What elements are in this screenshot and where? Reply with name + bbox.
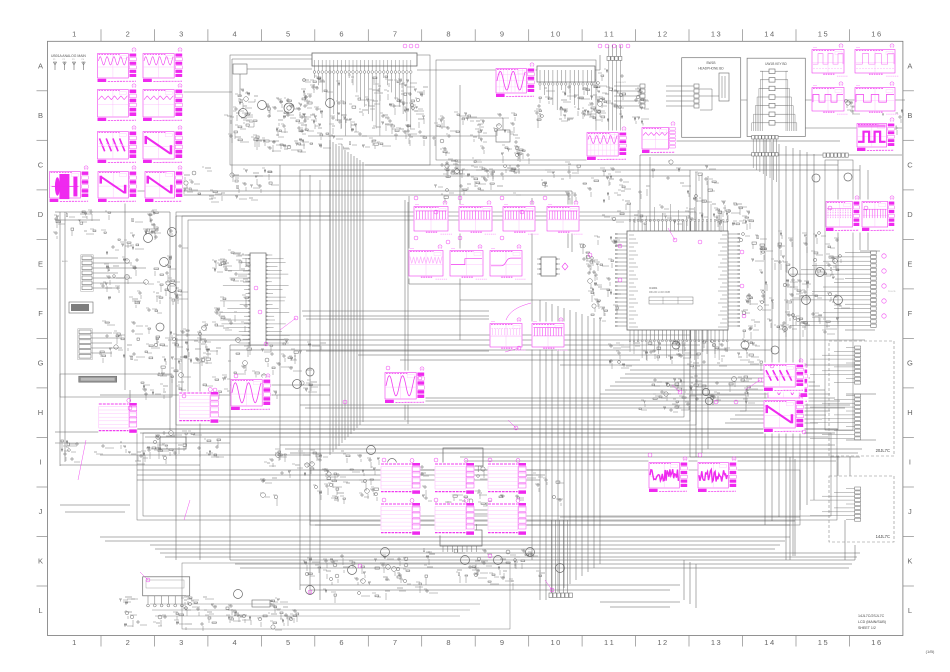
leader curve to comb inset	[506, 303, 531, 320]
circuit cluster: d row mid-left parts	[181, 167, 279, 202]
waveform inset W25	[490, 245, 527, 279]
waveform inset W1	[97, 48, 138, 84]
svg-text:L: L	[38, 606, 42, 615]
circuit cluster: ic1001 top periphery	[602, 198, 754, 232]
waveform inset W32	[385, 367, 426, 405]
connector CN604	[549, 593, 572, 598]
circuit cluster: vertical out section	[303, 554, 438, 603]
bus wiring harness horizontal	[55, 141, 902, 607]
svg-text:1 3: 1 3	[711, 29, 721, 38]
svg-text:E: E	[38, 260, 43, 269]
svg-text:1 6: 1 6	[871, 638, 881, 647]
dashed board 14JL7C	[829, 476, 894, 542]
transistor Q905	[672, 341, 680, 349]
waveform inset W7	[98, 166, 138, 204]
svg-text:C: C	[907, 161, 913, 170]
outline sync box	[60, 374, 172, 397]
magenta pointer lines	[78, 228, 760, 590]
svg-text:J: J	[908, 507, 912, 516]
svg-text:1: 1	[72, 638, 76, 647]
svg-text:F: F	[908, 309, 913, 318]
svg-text:P2: P2	[63, 59, 66, 61]
waveform inset W22	[547, 201, 584, 234]
svg-text:1 4: 1 4	[764, 29, 774, 38]
transistor Q202	[258, 101, 267, 110]
IC IC202	[537, 257, 560, 276]
CN604 risers	[552, 520, 568, 593]
svg-text:6: 6	[339, 638, 343, 647]
svg-text:R.CH OUT: R.CH OUT	[616, 82, 626, 84]
transistor Q602	[306, 586, 315, 595]
transistor Q1004	[834, 296, 843, 305]
svg-text:K: K	[907, 557, 912, 566]
connector CN902	[752, 153, 778, 157]
waveform inset W31	[231, 374, 272, 412]
svg-text:P3: P3	[72, 59, 75, 61]
circuit cluster: c row mid parts	[541, 160, 719, 205]
svg-text:14JL7C/2SJL7C: 14JL7C/2SJL7C	[858, 614, 885, 618]
module M1	[233, 64, 247, 74]
svg-text:IC1001: IC1001	[649, 286, 658, 290]
IC IC101	[220, 253, 290, 345]
svg-text:J: J	[39, 507, 43, 516]
transistor Q1001	[789, 268, 798, 277]
data inset L8	[488, 499, 527, 536]
svg-text:1 1: 1 1	[604, 638, 614, 647]
transistor Q907	[771, 346, 779, 354]
IC IC601 regulator	[143, 577, 190, 596]
transistor Q302	[306, 368, 314, 376]
IC IC1001 main processor	[615, 204, 739, 360]
CN601 bus drop	[609, 60, 621, 150]
connector CN201 strip	[537, 66, 595, 82]
waveform inset W18	[857, 118, 896, 153]
connector CN102	[78, 329, 92, 360]
transistor Q503	[556, 564, 565, 573]
transistor Q911	[844, 173, 852, 181]
sub-board BW1B HEADPHONE BD	[682, 58, 741, 138]
waveform inset W15	[855, 44, 900, 76]
small box M2	[496, 130, 510, 142]
svg-text:I: I	[39, 458, 41, 467]
wire M1	[247, 68, 312, 70]
component row I wires	[55, 442, 230, 444]
data inset L5	[488, 459, 527, 495]
svg-text:P4: P4	[82, 59, 85, 61]
svg-text:D: D	[907, 210, 913, 219]
svg-text:6: 6	[339, 29, 343, 38]
svg-text:G: G	[38, 359, 44, 368]
svg-text:LCD (MAIN/SUB): LCD (MAIN/SUB)	[858, 620, 886, 624]
transistor Q603	[348, 566, 357, 575]
circuit cluster: sub out section	[639, 374, 758, 412]
svg-text:20JL7C: 20JL7C	[876, 448, 890, 453]
waveform inset W4	[143, 84, 184, 123]
svg-text:1 0: 1 0	[550, 29, 560, 38]
circuit cluster: ic1001 left periphery	[579, 236, 621, 321]
transistor Q404	[388, 459, 397, 468]
CN701 pin fanout wires	[313, 66, 412, 136]
waveform inset W9	[49, 166, 90, 204]
waveform inset W27	[862, 196, 896, 233]
circuit cluster: audio out section	[845, 91, 904, 135]
circuit cluster: chroma amp section	[260, 449, 380, 506]
transistor Q102	[168, 228, 177, 237]
svg-text:C: C	[38, 161, 44, 170]
circuit cluster: ic101 periphery	[212, 250, 251, 342]
waveform inset W16	[812, 82, 849, 114]
svg-text:1 4: 1 4	[764, 638, 774, 647]
svg-text:F: F	[38, 309, 43, 318]
waveform inset W20	[459, 201, 497, 234]
circuit cluster: d row left parts	[53, 210, 173, 240]
svg-text:4: 4	[233, 638, 237, 647]
svg-text:1 5: 1 5	[818, 638, 828, 647]
L row outline	[182, 563, 510, 629]
waveform inset W28	[490, 318, 527, 350]
transistor Q1003	[802, 296, 811, 305]
headphone jack J801	[719, 73, 729, 101]
dashed board 20JL7C	[829, 341, 894, 456]
waveform inset W2	[143, 48, 184, 84]
svg-text:B: B	[907, 111, 912, 120]
connector CN802 stack	[640, 84, 645, 108]
circuit cluster: sound if section	[99, 321, 212, 370]
connector CN1301	[810, 487, 861, 521]
svg-text:D: D	[38, 210, 44, 219]
bus wiring harness vertical	[60, 60, 868, 608]
transistor Q501	[494, 556, 503, 565]
IC IC402	[443, 448, 483, 466]
circuit cluster: sync separator section	[141, 339, 326, 405]
circuit cluster: ic402 periphery	[420, 465, 564, 510]
svg-text:SHEET 1/2: SHEET 1/2	[858, 626, 876, 630]
svg-text:1 2: 1 2	[657, 29, 667, 38]
key bd drop wires	[753, 139, 777, 182]
circuit cluster: ic1001 right periphery	[738, 231, 850, 339]
circuit cluster: tone control section	[590, 69, 649, 129]
sub out outline	[690, 395, 746, 411]
key switches SW1-SW7	[760, 69, 788, 125]
wires CN802 left	[614, 86, 640, 106]
circuit cluster: video id section	[61, 431, 224, 464]
svg-text:I: I	[909, 458, 911, 467]
svg-text:8: 8	[446, 29, 450, 38]
connector CN1201	[810, 346, 861, 384]
connector CN901	[752, 136, 778, 140]
wires left section	[91, 258, 146, 353]
waveform inset W6	[143, 126, 184, 165]
svg-text:1 3: 1 3	[711, 638, 721, 647]
circuit cluster: chroma trap section	[432, 112, 530, 179]
svg-text:1 2: 1 2	[657, 638, 667, 647]
resistor box R601	[252, 600, 270, 607]
svg-text:P1: P1	[53, 59, 56, 61]
left audio jack block	[69, 302, 93, 313]
svg-text:L: L	[908, 606, 912, 615]
svg-text:9: 9	[500, 29, 504, 38]
waveform inset W17	[855, 82, 900, 114]
waveform inset W24	[450, 245, 488, 279]
svg-text:4: 4	[233, 29, 237, 38]
circuit cluster: c row mid parts 2	[434, 161, 521, 203]
svg-text:3: 3	[179, 638, 183, 647]
circuit cluster: video input section	[296, 75, 428, 149]
routing loop rectangles	[137, 55, 853, 525]
data inset L3	[381, 459, 421, 495]
IC IC401	[160, 437, 186, 449]
circuit cluster: cn201 lower parts	[534, 85, 606, 128]
svg-text:5: 5	[286, 638, 290, 647]
svg-text:TO LCD: TO LCD	[888, 291, 896, 293]
svg-text:K: K	[38, 557, 43, 566]
data inset L4	[435, 459, 475, 495]
waveform inset W33	[768, 364, 809, 404]
svg-text:1 0: 1 0	[550, 638, 560, 647]
connector CN601	[607, 56, 622, 60]
transistor Q1002	[816, 268, 825, 277]
waveform inset W38	[649, 457, 689, 494]
waveform inset W3	[97, 84, 138, 123]
transistor Q301	[293, 380, 302, 389]
transistor Q910	[812, 174, 820, 182]
border frame	[48, 41, 903, 635]
waveform inset W23	[409, 245, 448, 279]
svg-text:9: 9	[500, 638, 504, 647]
test point connectors TP1-TP4	[53, 59, 85, 70]
waveform inset W12	[587, 127, 628, 162]
L row link wires	[150, 603, 480, 605]
waveform inset W21	[503, 201, 540, 234]
data inset L7	[435, 499, 475, 536]
sub-board UW1B KEY BD	[747, 58, 805, 136]
transistor Q103	[160, 258, 169, 267]
svg-text:2: 2	[126, 638, 130, 647]
transistor Q104	[168, 284, 177, 293]
svg-text:H: H	[38, 408, 43, 417]
data inset L6	[381, 499, 421, 536]
circuit cluster: luma filter section	[224, 89, 314, 152]
waveform inset W19	[414, 201, 453, 234]
waveform inset W10	[496, 63, 536, 99]
svg-text:BW1B: BW1B	[706, 61, 715, 65]
waveform inset W8	[145, 166, 184, 204]
svg-text:G: G	[907, 359, 913, 368]
svg-text:2: 2	[126, 29, 130, 38]
svg-text:E: E	[907, 260, 912, 269]
transistor Q105	[156, 323, 164, 331]
connector CN1202	[810, 394, 861, 440]
svg-text:14JL7C: 14JL7C	[876, 534, 890, 539]
waveform inset W29	[532, 318, 569, 350]
circuit cluster: ic1001 bottom periphery	[608, 339, 762, 371]
wire net V1	[308, 135, 496, 137]
circuit cluster: power regulator section	[119, 596, 299, 631]
connector CN905	[823, 153, 848, 157]
waveform inset W37	[764, 395, 805, 434]
waveform inset W13	[642, 122, 677, 155]
svg-text:B: B	[38, 111, 43, 120]
IC IC501	[440, 530, 482, 546]
transistor Q604	[381, 548, 390, 557]
svg-text:5: 5	[286, 29, 290, 38]
svg-text:7: 7	[393, 638, 397, 647]
svg-text:H: H	[907, 408, 912, 417]
key ladder routing	[752, 71, 797, 131]
connector CN801	[694, 84, 699, 108]
data inset L2	[179, 388, 219, 424]
wire: strip top feeds	[417, 69, 600, 71]
CN601 riser wires	[609, 45, 621, 56]
scattered circled reference bubbles	[128, 196, 868, 594]
circled refs above CN701	[403, 44, 630, 48]
wire: strip to left rail	[232, 58, 312, 60]
svg-text:1 1: 1 1	[604, 29, 614, 38]
connector CN1101	[790, 251, 876, 327]
transistor Q201	[239, 109, 248, 118]
svg-text:HEADPHONE BD: HEADPHONE BD	[698, 67, 724, 71]
svg-text:M61260 LCD/COMB: M61260 LCD/COMB	[649, 292, 671, 294]
svg-text:1 6: 1 6	[871, 29, 881, 38]
transistor Q101	[144, 234, 153, 243]
transistor Q906	[741, 341, 749, 349]
transistor Q403	[367, 446, 376, 455]
magenta diamond marker	[562, 263, 568, 270]
svg-text:(1/B): (1/B)	[926, 649, 935, 654]
frame column ticks and numbers	[101, 29, 849, 646]
headphone wires	[666, 86, 719, 110]
svg-text:AV IN: AV IN	[62, 260, 68, 263]
svg-text:1: 1	[72, 29, 76, 38]
svg-text:1 5: 1 5	[818, 29, 828, 38]
wire right rail A	[740, 99, 905, 101]
svg-text:UB01A ANALOG MAIN: UB01A ANALOG MAIN	[51, 54, 86, 58]
circled refs near CN1101	[882, 254, 886, 318]
connector CN701 top strip	[312, 53, 417, 66]
waveform inset W14	[812, 44, 849, 76]
dark delay-line bar DL301	[79, 376, 117, 382]
transistor Q601	[234, 590, 243, 599]
transistor Q1102	[705, 397, 712, 404]
waveform inset W36	[764, 359, 805, 393]
waveform inset W5	[97, 126, 138, 165]
delay line DL201	[284, 103, 294, 113]
svg-text:3: 3	[179, 29, 183, 38]
circuit cluster: front AV input section	[100, 229, 188, 313]
transistor Q1101	[702, 388, 709, 395]
frame row ticks and letters	[37, 91, 914, 586]
transistor Q605	[461, 556, 470, 565]
svg-text:7: 7	[393, 29, 397, 38]
transistor Q502	[526, 548, 535, 557]
svg-text:A: A	[907, 62, 912, 71]
waveform inset W26	[826, 196, 861, 233]
svg-text:8: 8	[446, 638, 450, 647]
connector CN101	[81, 255, 93, 292]
svg-text:A: A	[38, 62, 43, 71]
data inset L1	[98, 399, 137, 434]
transistor Q203	[326, 99, 335, 108]
waveform inset W39	[698, 457, 738, 494]
svg-text:UW1B KEY BD: UW1B KEY BD	[765, 62, 787, 66]
circuit cluster: ic501 periphery	[423, 549, 545, 590]
